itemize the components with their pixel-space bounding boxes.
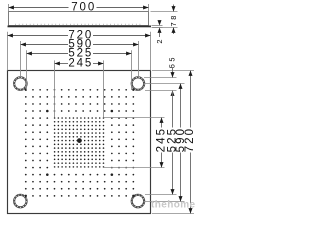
dimension 720 top xyxy=(8,30,151,42)
dimension 78 extension lines xyxy=(151,11,178,13)
side view face plate xyxy=(8,26,152,28)
dimension 590 right xyxy=(175,84,187,202)
sparse nozzle grid xyxy=(25,89,134,197)
corner rosette top-left xyxy=(14,77,27,90)
corner rosette bottom-right xyxy=(132,195,145,208)
svg-text:55: 55 xyxy=(168,55,177,68)
svg-text:720: 720 xyxy=(184,127,196,153)
dimension 78 line and arrows xyxy=(173,5,175,12)
dimension 245 right xyxy=(155,118,167,168)
dimension 700 line xyxy=(9,7,69,9)
corner rosette top-right xyxy=(132,77,145,90)
svg-text:700: 700 xyxy=(71,2,96,14)
sparse grid corner nozzles xyxy=(25,89,135,197)
corner rosette bottom-left xyxy=(14,195,27,208)
dimension 2 arrows and leader xyxy=(158,20,162,25)
dense nozzle grid xyxy=(54,117,104,167)
svg-text:2: 2 xyxy=(155,39,164,43)
side view body xyxy=(9,12,149,26)
center nozzle dot xyxy=(77,138,82,143)
right dimensions extension lines xyxy=(104,71,195,214)
dimension 245 top xyxy=(55,58,104,70)
dimension 720 right xyxy=(184,71,196,214)
top dimensions extension lines xyxy=(8,32,151,118)
dimension 55 right xyxy=(168,55,177,96)
svg-text:78: 78 xyxy=(169,13,178,26)
dimension 525 right xyxy=(166,91,178,195)
side view nozzle dashes xyxy=(16,24,140,25)
dimension 525 top xyxy=(27,48,132,60)
svg-text:245: 245 xyxy=(68,58,93,70)
dimension 2 extension lines xyxy=(152,25,163,27)
dimension 700 arrows xyxy=(9,6,14,10)
dimension 700 extension lines xyxy=(8,4,10,12)
sparse grid medium nozzles xyxy=(46,110,113,176)
svg-text:thehome: thehome xyxy=(151,200,196,211)
plan view square plate xyxy=(8,71,151,214)
dimension 590 top xyxy=(21,39,139,51)
